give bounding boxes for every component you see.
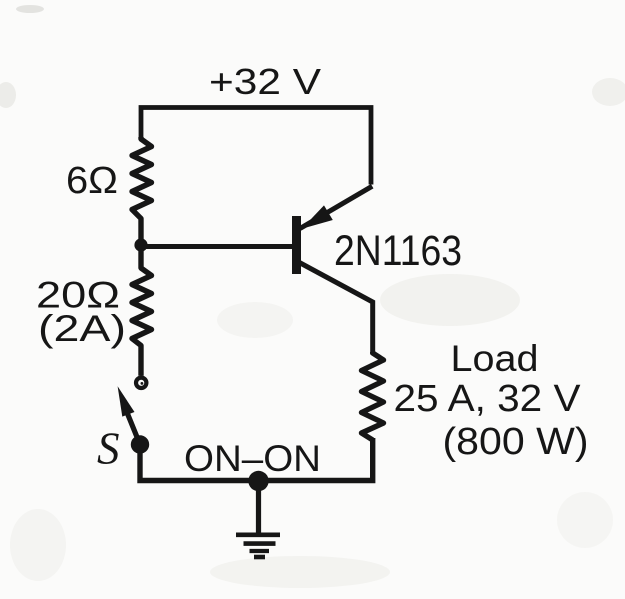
svg-text:Load: Load <box>451 338 539 379</box>
switch S blade arm <box>126 410 140 444</box>
wire: emitter vertical, top rail, left drop (one bent run) <box>141 108 371 185</box>
switch S contact inner dot <box>141 382 144 385</box>
resistor R2 20-ohm (2A) <box>132 245 152 376</box>
ground bar 1 <box>236 532 280 537</box>
resistor R1 6-ohm <box>132 137 152 245</box>
svg-text:6Ω: 6Ω <box>66 160 118 202</box>
svg-text:ON–ON: ON–ON <box>184 438 321 479</box>
svg-text:+32 V: +32 V <box>209 61 321 102</box>
switch S open contact circle <box>136 378 146 388</box>
ground bar 2 <box>244 541 276 546</box>
switch S pivot dot <box>131 435 149 453</box>
svg-text:S: S <box>97 424 120 474</box>
ground junction dot <box>248 471 268 491</box>
wire: switch leg, bottom rail, load bottom lead (one bent run) <box>140 438 373 481</box>
svg-text:25 A, 32 V: 25 A, 32 V <box>394 378 582 420</box>
transistor Q1 emitter arrowhead <box>302 205 333 228</box>
transistor Q1 collector diagonal and wire down to load <box>298 262 373 355</box>
switch S blade arrowhead <box>118 386 135 416</box>
resistor load 25A 32V <box>362 352 384 440</box>
wire: ground stem <box>256 481 261 536</box>
transistor Q1 emitter diagonal <box>300 186 372 228</box>
transistor Q1 base bar <box>292 216 301 274</box>
svg-text:2N1163: 2N1163 <box>334 227 462 275</box>
svg-text:(2A): (2A) <box>38 308 126 349</box>
node A junction dot <box>134 238 147 251</box>
ground bar 4 <box>254 555 265 560</box>
wire: base lead from node A to transistor <box>141 244 293 249</box>
ground bar 3 <box>250 549 270 553</box>
svg-text:(800 W): (800 W) <box>443 421 589 463</box>
